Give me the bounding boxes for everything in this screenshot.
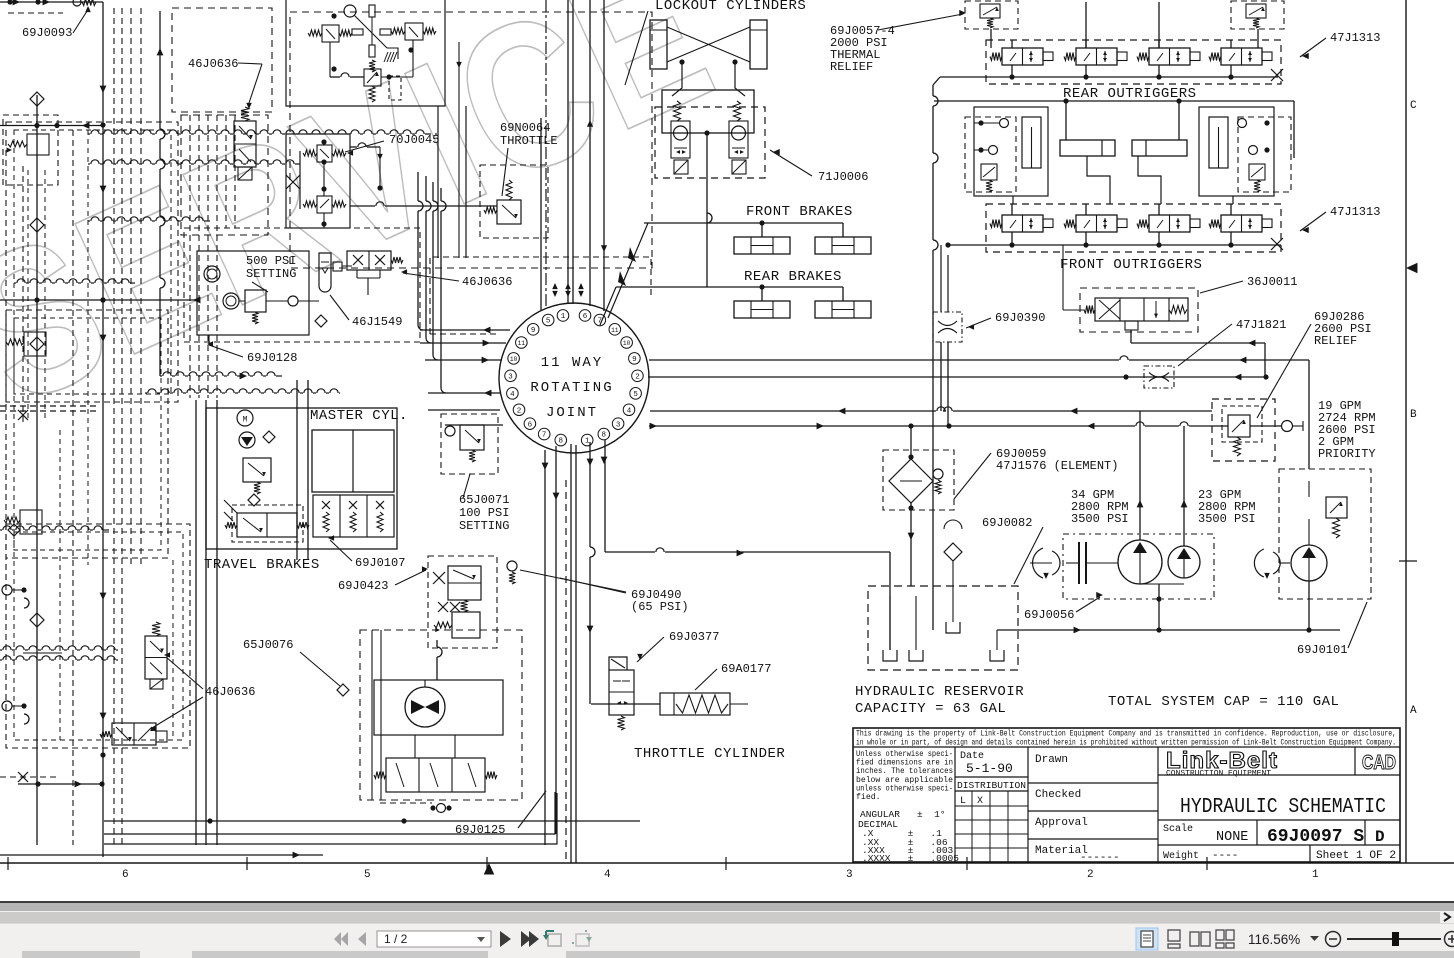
svg-text:69J0128: 69J0128 xyxy=(247,351,297,365)
svg-text:36J0011: 36J0011 xyxy=(1247,275,1297,289)
svg-text:9: 9 xyxy=(632,356,637,364)
svg-text:3: 3 xyxy=(846,869,853,881)
svg-text:11 WAY: 11 WAY xyxy=(541,355,603,371)
svg-text:47J1821: 47J1821 xyxy=(1236,318,1286,332)
svg-text:A: A xyxy=(1410,705,1417,717)
svg-text:inches. The tolerances: inches. The tolerances xyxy=(856,766,953,776)
svg-text:fied dimensions are in: fied dimensions are in xyxy=(856,758,953,768)
svg-text:REAR BRAKES: REAR BRAKES xyxy=(744,269,842,285)
svg-text:7: 7 xyxy=(542,432,547,440)
svg-text:69A0177: 69A0177 xyxy=(721,662,771,676)
svg-text:CAPACITY = 63 GAL: CAPACITY = 63 GAL xyxy=(855,701,1006,717)
svg-text:SETTING: SETTING xyxy=(459,519,509,533)
svg-text:M: M xyxy=(243,416,248,425)
svg-text:PRIORITY: PRIORITY xyxy=(1318,447,1376,461)
svg-text:1 / 2: 1 / 2 xyxy=(384,932,408,946)
svg-text:69J0423: 69J0423 xyxy=(338,579,388,593)
svg-text:65J0076: 65J0076 xyxy=(243,638,293,652)
svg-text:Drawn: Drawn xyxy=(1035,754,1068,766)
svg-text:3500 PSI: 3500 PSI xyxy=(1071,512,1129,526)
svg-text:9: 9 xyxy=(531,327,536,335)
svg-text:RELIEF: RELIEF xyxy=(1314,334,1357,348)
svg-text:5: 5 xyxy=(546,318,551,326)
svg-text:Unless otherwise speci-: Unless otherwise speci- xyxy=(856,749,953,759)
svg-text:47J1576 (ELEMENT): 47J1576 (ELEMENT) xyxy=(996,459,1118,473)
svg-text:6: 6 xyxy=(528,421,533,429)
svg-text:69J0082: 69J0082 xyxy=(982,516,1032,530)
svg-text:Scale: Scale xyxy=(1163,823,1193,835)
svg-text:5: 5 xyxy=(364,869,371,881)
svg-text:1: 1 xyxy=(1312,869,1319,881)
svg-text:3: 3 xyxy=(616,421,621,429)
svg-text:2: 2 xyxy=(1087,869,1094,881)
svg-text:This drawing is the property o: This drawing is the property of Link-Bel… xyxy=(856,730,1396,739)
svg-text:MASTER CYL.: MASTER CYL. xyxy=(310,408,408,424)
svg-text:X: X xyxy=(977,796,983,807)
svg-text:46J0636: 46J0636 xyxy=(462,275,512,289)
svg-text:69J0107: 69J0107 xyxy=(355,556,405,570)
svg-text:ROTATING: ROTATING xyxy=(530,380,613,396)
svg-text:5-1-90: 5-1-90 xyxy=(966,761,1013,776)
svg-text:L: L xyxy=(960,796,966,807)
svg-text:------: ------ xyxy=(1080,852,1120,864)
svg-text:1: 1 xyxy=(585,438,590,446)
svg-text:1: 1 xyxy=(561,313,566,321)
svg-text:3: 3 xyxy=(508,373,513,381)
svg-text:CONSTRUCTION EQUIPMENT: CONSTRUCTION EQUIPMENT xyxy=(1166,770,1272,778)
svg-text:69J0125: 69J0125 xyxy=(455,823,505,837)
svg-text:8: 8 xyxy=(602,432,607,440)
svg-text:47J1313: 47J1313 xyxy=(1330,31,1380,45)
svg-text:THROTTLE CYLINDER: THROTTLE CYLINDER xyxy=(634,746,785,762)
svg-text:Sheet 1 OF 2: Sheet 1 OF 2 xyxy=(1316,850,1396,862)
svg-text:3500 PSI: 3500 PSI xyxy=(1198,512,1256,526)
svg-text:500 PSI: 500 PSI xyxy=(246,254,296,268)
svg-text:in whole or in part, of design: in whole or in part, of design and detai… xyxy=(856,739,1396,748)
svg-text:TOTAL SYSTEM CAP = 110 GAL: TOTAL SYSTEM CAP = 110 GAL xyxy=(1108,694,1339,710)
svg-text:Checked: Checked xyxy=(1035,789,1081,801)
svg-text:4: 4 xyxy=(510,391,515,399)
svg-text:HYDRAULIC SCHEMATIC: HYDRAULIC SCHEMATIC xyxy=(1180,796,1386,819)
svg-text:11: 11 xyxy=(611,327,619,334)
svg-text:FRONT OUTRIGGERS: FRONT OUTRIGGERS xyxy=(1060,257,1202,273)
svg-text:5: 5 xyxy=(633,391,638,399)
svg-text:71J0006: 71J0006 xyxy=(818,170,868,184)
svg-text:2: 2 xyxy=(635,373,640,381)
svg-text:69J0056: 69J0056 xyxy=(1024,608,1074,622)
svg-text:100 PSI: 100 PSI xyxy=(459,506,509,520)
svg-text:10: 10 xyxy=(623,340,631,347)
svg-text:46J0636: 46J0636 xyxy=(188,57,238,71)
svg-text:DISTRIBUTION: DISTRIBUTION xyxy=(957,781,1026,791)
svg-text:NONE: NONE xyxy=(1216,830,1248,845)
svg-text:(65 PSI): (65 PSI) xyxy=(631,600,689,614)
svg-text:----: ---- xyxy=(1212,850,1238,862)
svg-text:TRAVEL BRAKES: TRAVEL BRAKES xyxy=(204,557,320,573)
svg-text:fied.: fied. xyxy=(856,792,881,802)
svg-text:69J0097 S: 69J0097 S xyxy=(1267,827,1364,847)
svg-text:.XXXX ± .0005: .XXXX ± .0005 xyxy=(862,853,959,864)
svg-text:116.56%: 116.56% xyxy=(1248,932,1300,947)
svg-text:70J0045: 70J0045 xyxy=(389,133,439,147)
svg-text:D: D xyxy=(1375,828,1385,846)
svg-text:46J0636: 46J0636 xyxy=(205,685,255,699)
svg-text:LOCKOUT CYLINDERS: LOCKOUT CYLINDERS xyxy=(655,0,806,14)
svg-text:46J1549: 46J1549 xyxy=(352,315,402,329)
svg-text:6: 6 xyxy=(583,313,588,321)
svg-text:unless otherwise speci-: unless otherwise speci- xyxy=(856,783,953,793)
svg-text:below are applicable: below are applicable xyxy=(856,775,953,785)
svg-text:REAR OUTRIGGERS: REAR OUTRIGGERS xyxy=(1063,86,1197,102)
svg-text:B: B xyxy=(1410,409,1417,421)
svg-text:10: 10 xyxy=(510,356,518,363)
svg-text:65J0071: 65J0071 xyxy=(459,493,509,507)
svg-text:6: 6 xyxy=(122,869,129,881)
svg-text:11: 11 xyxy=(518,340,526,347)
svg-text:4: 4 xyxy=(627,407,632,415)
svg-text:SETTING: SETTING xyxy=(246,267,296,281)
svg-text:JOINT: JOINT xyxy=(546,405,598,421)
svg-text:69J0093: 69J0093 xyxy=(22,26,72,40)
svg-text:C: C xyxy=(1410,100,1417,112)
svg-text:4: 4 xyxy=(604,869,611,881)
svg-text:THROTTLE: THROTTLE xyxy=(500,134,558,148)
svg-text:Approval: Approval xyxy=(1035,817,1088,829)
svg-text:CAD: CAD xyxy=(1362,752,1396,774)
svg-text:2: 2 xyxy=(517,407,522,415)
svg-text:HYDRAULIC RESERVOIR: HYDRAULIC RESERVOIR xyxy=(855,684,1024,700)
svg-text:Weight: Weight xyxy=(1163,850,1199,862)
svg-text:FRONT BRAKES: FRONT BRAKES xyxy=(746,204,853,220)
svg-text:69N0064: 69N0064 xyxy=(500,121,550,135)
svg-text:8: 8 xyxy=(559,438,564,446)
svg-text:69J0377: 69J0377 xyxy=(669,630,719,644)
svg-text:69J0101: 69J0101 xyxy=(1297,643,1347,657)
svg-text:69J0390: 69J0390 xyxy=(995,311,1045,325)
svg-text:47J1313: 47J1313 xyxy=(1330,205,1380,219)
svg-text:RELIEF: RELIEF xyxy=(830,60,873,74)
